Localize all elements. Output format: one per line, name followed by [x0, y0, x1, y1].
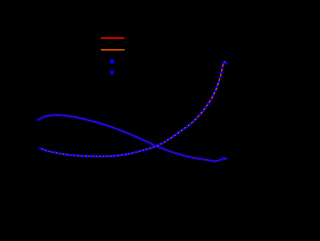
curve 1 (descending): red line: [39, 115, 227, 161]
curve 1 markers (blue dots): [37, 114, 227, 163]
legend marker 1 (blue dot): [110, 59, 115, 64]
legend line 1 (red): [101, 37, 125, 39]
legend marker 2 (blue dot): [110, 70, 114, 74]
curve 2 markers (blue dots): [39, 62, 228, 158]
legend line 2 (orange-red): [101, 49, 125, 51]
curve 2 (rising): orange-red line: [41, 62, 227, 156]
